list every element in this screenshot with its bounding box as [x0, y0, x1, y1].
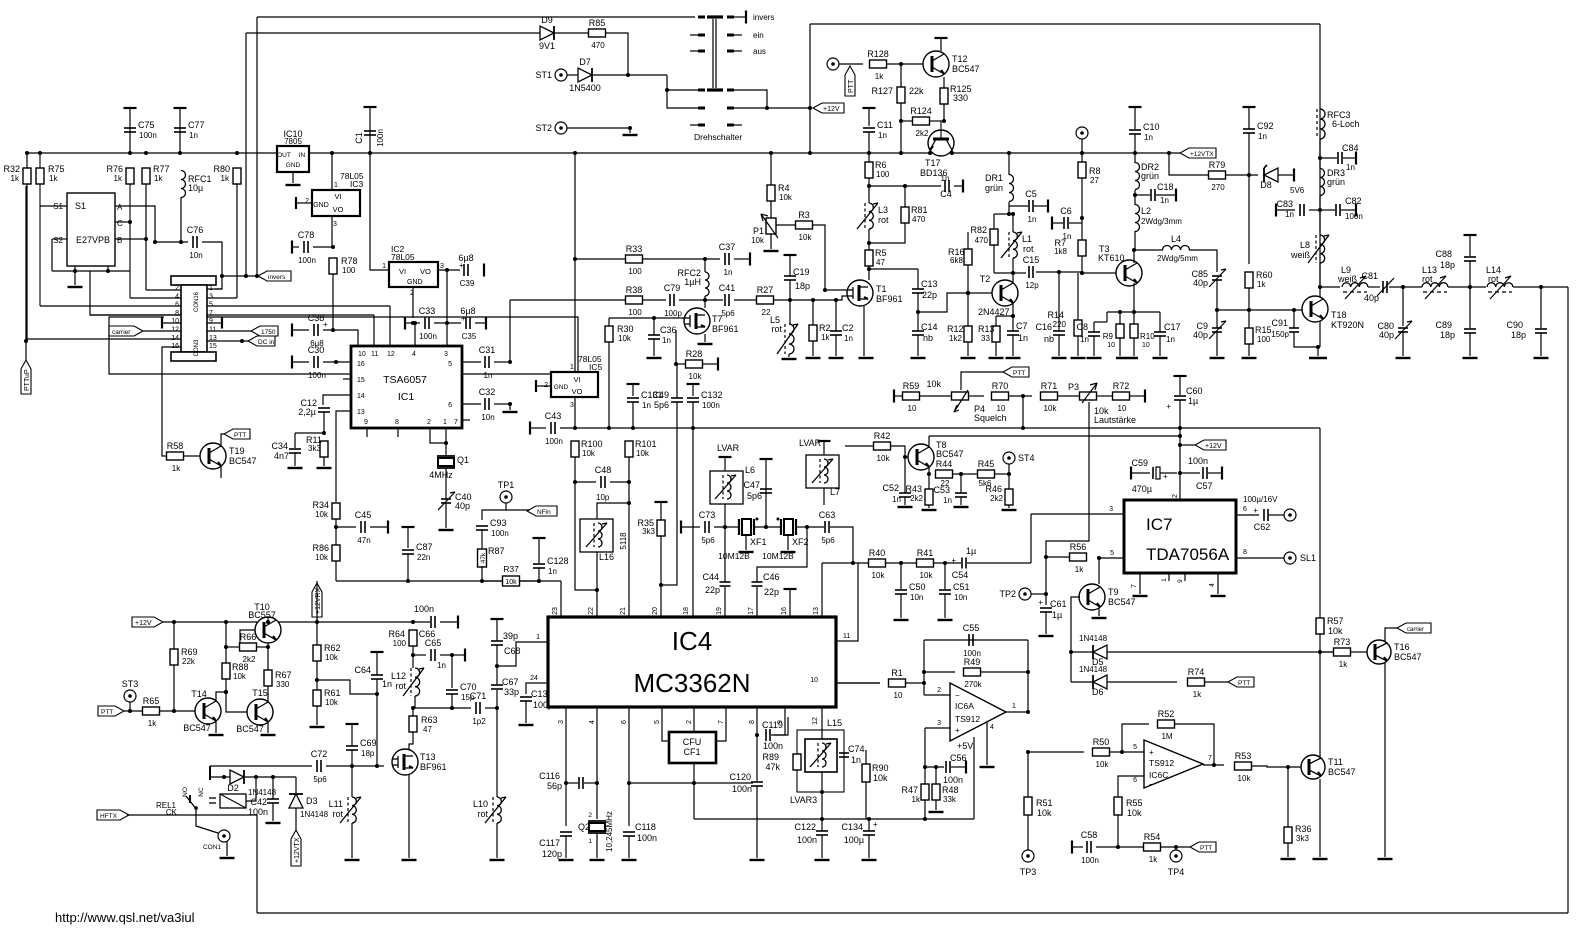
wire IC1 pin11 up: [373, 315, 375, 346]
ground S1: [68, 286, 83, 288]
op-amp IC6A: [950, 683, 1006, 741]
svg-text:R86: R86: [312, 543, 329, 553]
capacitor C63: [819, 510, 836, 545]
junction T3 emitter net: [1132, 310, 1136, 314]
wire L4 left: [1134, 249, 1163, 251]
junction R57 R73 D5: [1318, 650, 1322, 654]
capacitor C66 labels: [414, 604, 435, 639]
wire D3 bottom: [295, 808, 297, 830]
svg-text:GND: GND: [554, 384, 569, 391]
junction R28 left: [674, 362, 678, 366]
wire T7 drain stub: [704, 300, 706, 308]
wire C136 down: [525, 701, 527, 723]
junction R11 C34: [322, 431, 326, 435]
svg-text:2: 2: [175, 285, 179, 292]
junction T1 C13: [867, 267, 871, 271]
svg-text:R42: R42: [874, 431, 891, 441]
svg-text:R34: R34: [312, 500, 329, 510]
transistor T18: [1302, 296, 1328, 322]
capacitor C49 labels: [652, 390, 669, 410]
svg-text:CON16: CON16: [194, 291, 200, 312]
svg-text:R30: R30: [617, 324, 634, 334]
wire R101 down: [628, 457, 630, 617]
resistor R30: [605, 324, 634, 343]
svg-text:grün: grün: [1141, 171, 1159, 181]
capacitor C54: [962, 558, 966, 569]
terminal IC3 GND bar: [295, 197, 297, 209]
junction pin3 C116: [564, 781, 568, 785]
svg-text:47k: 47k: [480, 552, 487, 563]
junction R41 C51: [943, 561, 947, 565]
wire T7 source gnd: [704, 334, 706, 342]
wire R62-R61: [316, 661, 318, 690]
svg-text:10p: 10p: [596, 493, 610, 502]
svg-text:C38: C38: [308, 313, 325, 323]
svg-text:C62: C62: [1254, 522, 1271, 532]
terminal C84 right: [1355, 152, 1357, 165]
transistor T11: [1301, 755, 1356, 779]
svg-text:S1: S1: [75, 201, 86, 211]
junction L1 top: [1011, 212, 1015, 216]
label +5V: [957, 741, 973, 751]
wire D5 left: [1071, 651, 1093, 653]
svg-text:1k: 1k: [1075, 565, 1084, 574]
svg-text:T14: T14: [191, 689, 207, 699]
wire IC7 pin8: [1236, 557, 1284, 559]
spacer2: [0, 0, 1, 1]
transistor T19: [200, 443, 257, 469]
svg-text:C60: C60: [1186, 386, 1203, 396]
junction y310 R15: [1247, 308, 1251, 312]
svg-text:100n: 100n: [545, 437, 563, 446]
svg-text:1N4148: 1N4148: [1079, 634, 1108, 643]
svg-text:11: 11: [371, 351, 378, 358]
svg-text:22n: 22n: [417, 553, 430, 562]
pin IC7 pin5 label: [1110, 550, 1114, 557]
wire Q1 down: [445, 468, 447, 499]
svg-text:LVAR: LVAR: [717, 443, 740, 453]
wire CFU to y819: [693, 783, 695, 819]
junction R127 rail: [899, 151, 903, 155]
svg-text:R127: R127: [871, 86, 893, 96]
capacitor C56 labels: [943, 753, 967, 785]
svg-text:1N5400: 1N5400: [569, 83, 601, 93]
svg-text:XF1: XF1: [750, 537, 767, 547]
capacitor C47 labels: [743, 480, 762, 501]
svg-text:10k: 10k: [315, 553, 329, 562]
wire C57 row: [1180, 472, 1200, 474]
pin IC4 pin2 bottom: [686, 720, 693, 724]
wire R35 lead: [660, 502, 662, 521]
svg-text:16: 16: [357, 361, 365, 368]
svg-text:+: +: [1166, 402, 1171, 411]
svg-text:1n: 1n: [844, 334, 853, 343]
svg-text:CFU: CFU: [683, 737, 702, 747]
svg-text:IN: IN: [299, 152, 306, 159]
label switch ein: [753, 31, 764, 40]
ground R48: [929, 811, 944, 813]
wire C10 lead: [1134, 107, 1136, 129]
wire R36 down: [1287, 843, 1289, 857]
svg-text:40p: 40p: [455, 501, 470, 511]
wire R87 down: [481, 566, 483, 581]
junction S1B R77: [144, 237, 148, 241]
svg-text:http://www.qsl.net/va3iul: http://www.qsl.net/va3iul: [55, 910, 195, 925]
wire fb up: [923, 640, 925, 683]
ground C8: [1087, 357, 1102, 359]
wire R52 loop: [1122, 724, 1149, 752]
wire T8 collector rail: [929, 435, 1180, 437]
ground C52: [898, 506, 913, 508]
wire DR1 top: [1008, 153, 1010, 175]
label LVAR 1: [717, 443, 740, 453]
svg-text:C63: C63: [819, 510, 836, 520]
svg-text:3: 3: [570, 402, 574, 409]
svg-text:CK: CK: [166, 808, 178, 817]
svg-text:3k3: 3k3: [642, 527, 655, 536]
junction C11 rail: [867, 151, 871, 155]
wire C72 right: [326, 765, 384, 767]
terminal pin16 bar: [784, 588, 797, 590]
ground C134: [862, 859, 877, 861]
junction R7 T3: [1080, 271, 1084, 275]
capacitor C2: [830, 331, 842, 335]
svg-text:R51: R51: [1036, 798, 1053, 808]
wire R13 down: [995, 342, 997, 356]
svg-text:C116: C116: [539, 771, 560, 781]
wire C88 lead: [1469, 235, 1471, 256]
wire C66 right lead: [440, 621, 458, 623]
svg-text:5V6: 5V6: [1290, 186, 1305, 195]
wire emitter bus right: [1134, 311, 1160, 313]
junction y428 x693: [691, 426, 695, 430]
capacitor C53: [955, 493, 967, 497]
svg-text:18p: 18p: [1511, 330, 1526, 340]
svg-text:BC547: BC547: [229, 456, 257, 466]
wire R73 right: [1351, 651, 1367, 653]
junction C39 col C33row: [445, 321, 449, 325]
pin IC4 pin18 top: [683, 607, 690, 615]
wire DR2 top: [1134, 153, 1136, 163]
svg-text:5p6: 5p6: [721, 309, 735, 318]
resistor R35: [657, 520, 665, 536]
svg-text:1k8: 1k8: [1054, 247, 1067, 256]
wire IC1 pin15 stub: [343, 378, 351, 380]
junction T3 coll: [1132, 248, 1136, 252]
svg-text:22: 22: [588, 607, 595, 615]
wire CON pin7: [207, 314, 374, 316]
svg-text:33p: 33p: [504, 687, 519, 697]
wire C36 top lead: [653, 318, 655, 335]
capacitor C118: [623, 832, 635, 836]
wire CON pin11: [207, 330, 251, 332]
wire P4 to PTT: [961, 372, 1003, 390]
inductor L6 box: [710, 471, 743, 504]
svg-text:BC547: BC547: [952, 64, 980, 74]
wire C30 to pin16: [323, 361, 351, 363]
svg-text:C: C: [117, 219, 123, 228]
junction Q1 top: [444, 441, 448, 445]
capacitor C55: [963, 623, 981, 658]
ground IC7 pin7: [1133, 595, 1148, 597]
svg-text:5: 5: [1110, 550, 1114, 557]
svg-text:C76: C76: [187, 225, 204, 235]
ground T16: [1378, 858, 1393, 860]
wire C117 down: [565, 836, 567, 858]
junction C32: [508, 402, 512, 406]
capacitor C9: [1193, 321, 1226, 340]
flag PTT vert: [845, 66, 855, 96]
wire IC1 pin14: [323, 395, 351, 405]
svg-text:10k: 10k: [926, 379, 941, 389]
wire switch left drop: [667, 90, 698, 108]
svg-text:5p6: 5p6: [701, 536, 715, 545]
junction T10 R67: [266, 645, 270, 649]
capacitor C8 labels: [1076, 322, 1089, 344]
wire C78 right: [313, 246, 333, 248]
resistor R90: [862, 764, 870, 782]
wire C89 col: [1469, 287, 1471, 328]
svg-text:C36: C36: [660, 325, 677, 335]
wire D3 top: [295, 777, 297, 794]
wire C73 lead: [681, 526, 700, 528]
svg-text:1: 1: [1161, 578, 1168, 582]
wire pin1 tap: [497, 642, 548, 666]
junction y428 x1023: [1021, 426, 1025, 430]
svg-text:12: 12: [812, 717, 819, 725]
svg-text:R5: R5: [875, 248, 887, 258]
svg-text:10k: 10k: [920, 571, 934, 580]
wire x1180 down: [1179, 428, 1181, 500]
svg-text:100n: 100n: [1345, 212, 1363, 221]
pin IC7 pin8 label: [1243, 549, 1247, 556]
wire TP2 wire: [1031, 593, 1046, 595]
junction C84: [1318, 156, 1322, 160]
wire CON pin4: [130, 297, 181, 299]
svg-text:NO: NO: [182, 787, 189, 797]
junction +12V x317: [315, 620, 319, 624]
junction y310 C91: [1292, 308, 1296, 312]
svg-text:T18: T18: [1331, 310, 1347, 320]
wire C51 down: [944, 594, 946, 618]
ground C122: [815, 859, 830, 861]
svg-text:PTT: PTT: [1200, 845, 1212, 852]
svg-text:NC: NC: [198, 787, 205, 797]
wire C55 row: [924, 639, 1028, 641]
svg-text:+5V: +5V: [957, 741, 973, 751]
wire out row a: [1320, 286, 1340, 288]
svg-text:C10: C10: [1143, 122, 1160, 132]
inductor L6: [715, 475, 736, 499]
svg-text:3k3: 3k3: [308, 444, 321, 453]
wire R81 top: [904, 186, 906, 207]
ground L11: [345, 859, 360, 861]
diode D9: [539, 15, 555, 51]
wire pin3 riser: [1030, 514, 1032, 563]
wire S1 S2 drop: [51, 239, 53, 271]
wire IC1 pin7 stub: [462, 419, 470, 421]
wire R54 right: [1161, 846, 1190, 848]
resistor R11 labels: [306, 435, 322, 453]
capacitor C62 labels: [1253, 506, 1270, 532]
capacitor C128: [533, 556, 569, 576]
svg-text:15: 15: [357, 377, 365, 384]
wire C10 down: [1134, 134, 1136, 153]
resistor R7: [1078, 240, 1086, 256]
ground R9 R10: [1116, 357, 1138, 359]
svg-text:R100: R100: [581, 439, 603, 449]
wire D2 right: [244, 776, 296, 778]
wire R28 right lead: [703, 363, 718, 365]
wire L10 top: [496, 708, 498, 797]
connector ST1: [535, 69, 567, 81]
svg-text:nb: nb: [1044, 334, 1054, 344]
wire C61 down: [1045, 612, 1047, 634]
wire C6 right lead: [1069, 222, 1082, 224]
svg-text:7: 7: [1208, 755, 1212, 762]
junction L3 R5: [867, 241, 871, 245]
diode D8: [1264, 165, 1278, 182]
svg-text:C14: C14: [921, 322, 938, 332]
wire relay arm to CON1: [196, 810, 218, 833]
junction pin4 C33: [413, 321, 417, 325]
svg-text:1: 1: [334, 182, 338, 189]
junction T11 base R36: [1286, 765, 1290, 769]
ground Q2: [590, 859, 605, 861]
resistor R71: [1041, 381, 1058, 413]
terminal C87 top: [402, 526, 415, 528]
wire y396 to y428: [1022, 396, 1024, 428]
wire P3 wiper down: [1046, 402, 1089, 557]
wire IC7 pin9 stub: [1184, 573, 1186, 581]
junction rail R77: [144, 151, 148, 155]
svg-text:C59: C59: [1131, 458, 1148, 468]
wire PTT term lead: [839, 63, 863, 65]
switch Drehschalter wiper: [713, 19, 716, 88]
terminal C10 top: [1129, 106, 1142, 108]
wire T14 collector: [216, 692, 226, 702]
junction R48 top: [934, 765, 938, 769]
svg-text:3: 3: [209, 293, 213, 300]
resistor R88: [222, 662, 249, 681]
inductor L4 value: [1157, 254, 1198, 263]
wire C15-T3base: [1059, 271, 1082, 273]
inductor L1: [1001, 232, 1022, 258]
terminal D8 right: [1293, 169, 1295, 182]
svg-text:12p: 12p: [1025, 281, 1039, 290]
svg-text:BF961: BF961: [712, 324, 739, 334]
svg-text:+: +: [1253, 506, 1258, 515]
ground L10: [490, 859, 505, 861]
wire C90 col: [1540, 287, 1542, 328]
resistor R53: [1235, 751, 1252, 783]
terminal R35 top: [655, 501, 668, 503]
inductor L8: [1308, 235, 1329, 263]
svg-text:1N4148: 1N4148: [1079, 665, 1108, 674]
junction R62 R61: [315, 678, 319, 682]
svg-text:1n: 1n: [724, 268, 733, 277]
capacitor C34: [289, 449, 301, 453]
capacitor C89 labels: [1435, 320, 1455, 340]
resistor R89: [793, 754, 801, 770]
capacitor C57 labels: [1188, 456, 1213, 491]
wire R52 right: [1175, 724, 1214, 765]
capacitor C36: [648, 335, 660, 339]
wire C47 col: [765, 459, 767, 527]
wire R3 right: [813, 225, 825, 290]
resistor R40: [869, 548, 886, 580]
capacitor C64: [371, 675, 383, 679]
svg-text:invers: invers: [753, 13, 774, 22]
svg-text:C6: C6: [1060, 206, 1072, 216]
resistor R52: [1158, 709, 1175, 741]
wire R127 top lead: [900, 64, 902, 87]
junction R52 tap: [1120, 750, 1124, 754]
relay REL1 contacts: [182, 766, 210, 810]
ground C32: [503, 411, 518, 413]
svg-text:330: 330: [953, 93, 968, 103]
wire R16 top: [967, 232, 969, 249]
junction C13 C14: [916, 310, 920, 314]
svg-text:C72: C72: [311, 749, 328, 759]
wire R69 top: [173, 622, 175, 649]
wire C65 left lead: [413, 654, 426, 656]
svg-text:R1: R1: [891, 668, 903, 678]
wire R44 right: [953, 473, 977, 475]
wire C36 down: [653, 339, 655, 356]
wire R75 column: [39, 153, 41, 306]
resistor R64 labels: [388, 629, 406, 648]
wire C8 net: [1093, 322, 1095, 332]
svg-text:C88: C88: [1435, 249, 1452, 259]
wire IC6A out: [1006, 711, 1028, 713]
wire R59 lead: [894, 395, 903, 397]
resistor R101: [625, 439, 657, 458]
wire RFC1 down: [180, 197, 182, 242]
svg-text:47: 47: [423, 725, 432, 734]
svg-text:C45: C45: [355, 510, 372, 520]
junction rail R75: [38, 151, 42, 155]
pin IC7 pin2 label: [1172, 494, 1179, 498]
ground C50: [894, 619, 909, 621]
svg-text:−: −: [955, 691, 960, 700]
svg-text:9: 9: [1177, 579, 1184, 583]
svg-text:R128: R128: [867, 49, 889, 59]
junction x1180 flag: [1178, 443, 1182, 447]
wire R127 down: [900, 103, 902, 153]
wire C19 top lead: [789, 255, 791, 276]
svg-text:R88: R88: [232, 662, 249, 672]
svg-text:10: 10: [997, 404, 1006, 413]
label switch invers: [753, 13, 774, 22]
junction R101 L16top: [627, 501, 631, 505]
svg-text:5: 5: [1133, 744, 1137, 751]
svg-text:10k: 10k: [315, 510, 329, 519]
junction R44 R45: [959, 472, 963, 476]
wire C122 lead: [821, 819, 823, 831]
capacitor C72: [311, 749, 328, 784]
junction R2 row: [811, 298, 815, 302]
svg-text:rot: rot: [1023, 244, 1034, 254]
resistor R55: [1114, 797, 1122, 815]
terminal R28 right: [717, 358, 719, 371]
wire fb R49 row: [924, 671, 955, 673]
svg-text:C90: C90: [1506, 320, 1523, 330]
wire C58 right: [1096, 846, 1143, 848]
junction C47 mid: [764, 525, 768, 529]
svg-text:BC547: BC547: [1108, 597, 1136, 607]
wire R59-P4: [920, 395, 952, 397]
